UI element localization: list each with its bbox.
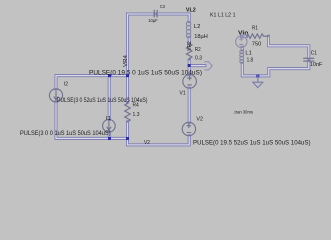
svg-text:18µH: 18µH xyxy=(194,34,208,40)
svg-text:PULSE(3 0 0 1uS 1uS 50uS 104uS: PULSE(3 0 0 1uS 1uS 50uS 104uS) xyxy=(20,130,111,137)
wire strokes (outer dark edges + light core) xyxy=(56,14,309,145)
current source I2 xyxy=(49,89,62,102)
svg-text:V1: V1 xyxy=(179,90,185,96)
svg-text:750: 750 xyxy=(252,41,262,47)
port flag arrow xyxy=(205,62,212,70)
svg-text:10µF: 10µF xyxy=(148,18,158,23)
svg-text:I1: I1 xyxy=(106,116,112,122)
voltage source V2 xyxy=(182,122,195,135)
svg-text:C3: C3 xyxy=(160,4,166,9)
capacitor C1 xyxy=(304,58,314,61)
svg-text:V2: V2 xyxy=(144,140,150,146)
svg-text:C1: C1 xyxy=(311,50,317,56)
svg-text:0.3: 0.3 xyxy=(195,55,202,61)
resistor R4 xyxy=(125,102,131,122)
svg-text:R2: R2 xyxy=(195,47,201,53)
svg-text:1.8: 1.8 xyxy=(247,57,254,63)
current source I1 xyxy=(103,120,116,133)
node junction ground xyxy=(256,75,259,78)
voltage source Vin xyxy=(236,36,247,47)
svg-text:V2: V2 xyxy=(196,117,203,123)
svg-text:VL2: VL2 xyxy=(186,8,196,14)
svg-text:R1: R1 xyxy=(252,25,258,31)
resistor R1 xyxy=(247,34,269,38)
node junction bus / left column xyxy=(126,137,129,140)
node junction mid wire / left column xyxy=(126,74,129,77)
svg-text:K1 L1 L2 1: K1 L1 L2 1 xyxy=(210,13,236,19)
svg-text:10nF: 10nF xyxy=(310,62,323,68)
svg-text:L1: L1 xyxy=(245,51,252,57)
svg-text:.tran 30ms: .tran 30ms xyxy=(233,110,253,116)
capacitor C3 xyxy=(154,10,157,16)
svg-text:PULSE(3 0 52uS 1uS 1uS 50uS 10: PULSE(3 0 52uS 1uS 1uS 50uS 104uS) xyxy=(57,97,148,104)
svg-text:VR2: VR2 xyxy=(187,41,193,51)
voltage source V1 xyxy=(183,75,197,89)
ground xyxy=(253,76,263,88)
inductor L2 xyxy=(186,22,190,38)
svg-text:L2: L2 xyxy=(194,24,201,30)
resistor R2 xyxy=(186,44,192,61)
inductor L1 xyxy=(240,50,244,63)
node junction V1 / port wire xyxy=(188,64,191,67)
node junction mid wire / I1 xyxy=(108,74,111,77)
svg-text:PULSE(0 19.5 0 1uS 1uS 50uS 10: PULSE(0 19.5 0 1uS 1uS 50uS 104uS) xyxy=(89,69,202,76)
svg-text:VR4: VR4 xyxy=(123,55,129,67)
svg-text:I2: I2 xyxy=(64,81,68,87)
svg-text:PULSE(0 19.5 52uS 1uS 1uS 50uS: PULSE(0 19.5 52uS 1uS 1uS 50uS 104uS) xyxy=(193,139,311,146)
node junction bus / I1 xyxy=(108,137,111,140)
svg-text:1.3: 1.3 xyxy=(133,112,140,118)
